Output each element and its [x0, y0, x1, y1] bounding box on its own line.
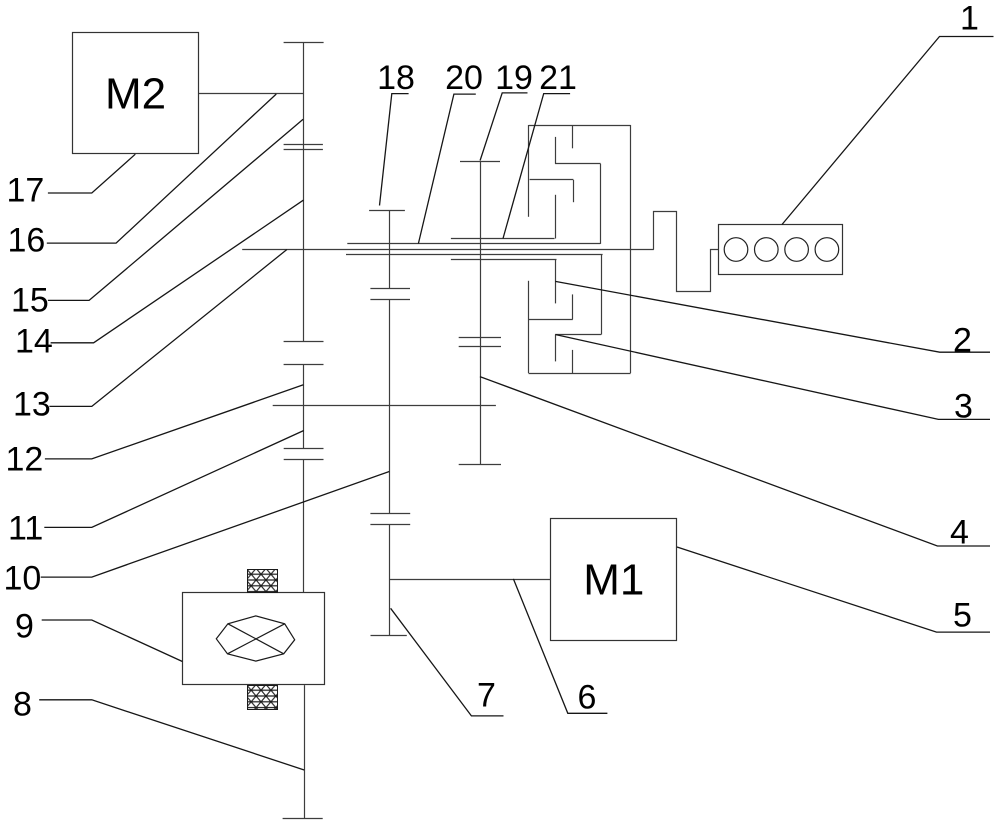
gear pair upper line on middle shaft [370, 288, 410, 290]
svg-text:M2: M2 [105, 70, 166, 119]
svg-text:M1: M1 [583, 556, 644, 605]
wire M1 link [390, 579, 551, 581]
svg-text:6: 6 [578, 679, 597, 717]
clutch lower inner horizontal b [529, 319, 573, 321]
gear pair upper line on shaft 19 [459, 337, 501, 339]
sleeve 20 upper long line [347, 243, 600, 245]
clutch upper inner vertical c [573, 180, 575, 202]
svg-text:10: 10 [4, 560, 42, 598]
svg-text:3: 3 [954, 388, 973, 426]
leader 18 [380, 94, 409, 206]
svg-text:1: 1 [960, 0, 979, 38]
input shaft main line [242, 249, 654, 251]
leader 7 [391, 608, 504, 716]
crankshaft zigzag [654, 212, 719, 292]
motor M2 box [73, 33, 199, 154]
crosshatch block top [248, 570, 278, 593]
gear mesh cross line [273, 405, 496, 407]
clutch upper inner vertical d [555, 195, 557, 239]
svg-text:16: 16 [8, 222, 46, 260]
sleeve lower line [284, 149, 323, 151]
motor M1 box [551, 519, 677, 641]
sleeve 20 lower long line [346, 254, 603, 256]
leader 21 [503, 94, 570, 239]
gear pair lower line on middle shaft [370, 299, 410, 301]
clutch lower inner vertical c [555, 335, 557, 362]
shaft 18 middle vertical mid segment [389, 300, 391, 513]
svg-text:9: 9 [15, 608, 34, 646]
leader 20 [418, 94, 475, 243]
clutch housing left edge upper [528, 125, 530, 217]
leader 5 [677, 547, 990, 632]
sleeve upper line [284, 144, 323, 146]
leader 17 [48, 154, 135, 193]
svg-text:5: 5 [953, 597, 972, 635]
middle shaft bottom cap [371, 635, 407, 637]
svg-text:19: 19 [495, 59, 533, 97]
shaft 15 left vertical upper segment [303, 42, 305, 341]
shaft 15 left vertical middle segment [303, 364, 305, 448]
gear pair 2 upper line on middle shaft [370, 513, 410, 515]
gear pair lower line on left shaft [284, 459, 324, 461]
shaft 19 vertical [480, 162, 482, 465]
svg-text:4: 4 [950, 514, 969, 552]
leader 14 [51, 200, 304, 343]
leader 15 [48, 119, 303, 300]
shaft 19 T cap [460, 161, 500, 163]
bevel gear octagon [216, 616, 294, 661]
leader 4 [480, 377, 990, 546]
engine 1 block [719, 225, 843, 275]
coupling lower line [284, 364, 324, 366]
leader 2 [555, 281, 990, 352]
crosshatch block bottom [248, 686, 278, 710]
engine cylinder 4 [815, 238, 839, 262]
bevel gear cross line b [228, 624, 285, 654]
bevel gear cross line a [228, 624, 284, 654]
gear pair upper line on left shaft [284, 448, 324, 450]
shaft 19 bottom cap [459, 464, 501, 466]
engine cylinder 1 [724, 238, 748, 262]
clutch housing right edge [630, 125, 632, 373]
svg-text:15: 15 [11, 282, 49, 320]
clutch upper inner horizontal a [555, 163, 601, 165]
svg-text:18: 18 [377, 59, 415, 97]
left shaft top cap [284, 42, 324, 44]
left shaft bottom cap [283, 818, 323, 820]
gear pair 2 lower line on middle shaft [370, 524, 410, 526]
coupling upper line [284, 341, 324, 343]
clutch lower inner horizontal a [555, 334, 601, 336]
svg-text:2: 2 [953, 322, 972, 360]
svg-text:12: 12 [6, 441, 44, 479]
svg-text:21: 21 [539, 59, 577, 97]
clutch lower inner vertical d [572, 294, 574, 319]
wire M2 rotor link [199, 93, 304, 95]
svg-text:20: 20 [445, 59, 483, 97]
engine cylinder 3 [785, 238, 809, 262]
leader 9 [42, 620, 183, 662]
leader 3 [556, 335, 990, 420]
clutch upper inner vertical b [600, 164, 602, 244]
hub 21 lower line [451, 259, 557, 261]
gear pair lower line on shaft 19 [459, 346, 501, 348]
clutch lower inner vertical e [572, 350, 574, 373]
svg-text:7: 7 [477, 677, 496, 715]
engine cylinder 2 [755, 238, 779, 262]
leader 8 [39, 700, 304, 770]
leader 19 [480, 93, 527, 161]
svg-text:13: 13 [13, 386, 51, 424]
hub 21 upper line [451, 238, 555, 240]
clutch housing left edge lower [528, 281, 530, 373]
svg-text:14: 14 [15, 323, 53, 361]
leader 6 [513, 579, 607, 713]
clutch upper inner vertical a [555, 137, 557, 164]
shaft 18 middle vertical top cap [369, 210, 405, 212]
differential box 9 [183, 593, 325, 685]
shaft 15 left vertical bottom segment [304, 685, 306, 818]
clutch upper stub from top [572, 125, 574, 148]
shaft 18 middle vertical upper segment [389, 210, 391, 288]
clutch upper inner horizontal b [530, 179, 574, 181]
leader 13 [49, 250, 287, 407]
clutch housing bottom edge [529, 373, 631, 375]
clutch lower inner vertical a [555, 260, 557, 304]
svg-text:17: 17 [7, 172, 45, 210]
clutch housing top edge [529, 125, 631, 127]
leader 12 [45, 385, 304, 459]
leader 10 [41, 472, 390, 578]
svg-text:8: 8 [13, 686, 32, 724]
clutch lower inner vertical b [601, 254, 603, 334]
svg-text:11: 11 [8, 510, 43, 548]
leader 1 [782, 37, 994, 225]
leader 16 [47, 94, 276, 243]
shaft 18 middle vertical lower segment [389, 524, 391, 636]
shaft 15 left vertical lower segment [303, 460, 305, 593]
leader 11 [44, 431, 304, 528]
